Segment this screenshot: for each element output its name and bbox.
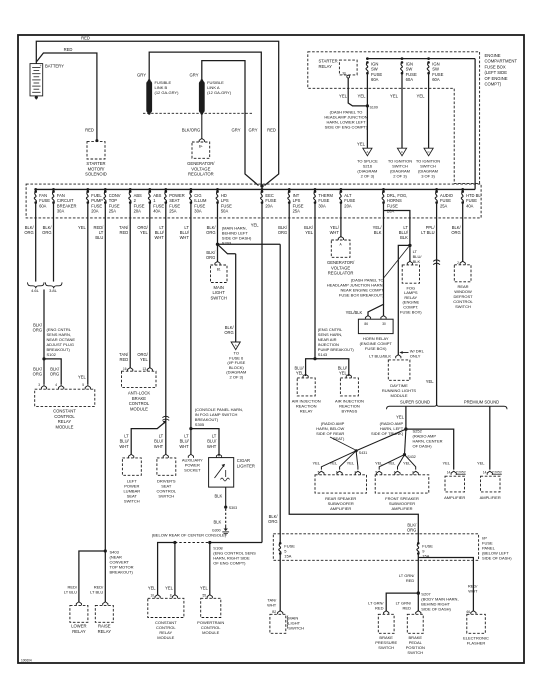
svg-text:ONLY: ONLY: [410, 353, 421, 358]
svg-text:RED: RED: [120, 357, 129, 362]
svg-text:BLU: BLU: [95, 235, 103, 240]
svg-text:FUSE BOX BREAKOUT): FUSE BOX BREAKOUT): [339, 293, 384, 298]
svg-text:2 OF 3): 2 OF 3): [230, 375, 244, 380]
svg-text:ORG: ORG: [206, 255, 215, 260]
svg-text:WHT: WHT: [154, 444, 164, 449]
svg-text:WHT: WHT: [180, 235, 190, 240]
svg-text:S303: S303: [229, 506, 237, 510]
svg-text:20A: 20A: [265, 203, 273, 208]
svg-text:(LEFT SIDE: (LEFT SIDE: [485, 70, 508, 75]
svg-text:30: 30: [382, 322, 386, 326]
svg-text:WHT: WHT: [179, 444, 189, 449]
svg-text:25A: 25A: [293, 209, 301, 214]
svg-text:RELAY: RELAY: [300, 409, 313, 414]
svg-text:COMPARTMENT: COMPARTMENT: [485, 59, 518, 64]
svg-text:GRY: GRY: [232, 128, 241, 133]
svg-text:14: 14: [483, 470, 487, 474]
svg-text:SWITCH: SWITCH: [158, 494, 174, 499]
svg-text:OF ENGINE: OF ENGINE: [485, 76, 508, 81]
svg-text:BYPASS: BYPASS: [342, 409, 358, 414]
svg-text:RELAY: RELAY: [72, 629, 86, 634]
svg-text:LT BLU: LT BLU: [64, 590, 77, 595]
svg-text:FUSE BOX): FUSE BOX): [365, 346, 387, 351]
svg-text:SIDE OF TRUNK): SIDE OF TRUNK): [371, 431, 404, 436]
svg-text:55: 55: [202, 594, 206, 598]
svg-text:LT BLU: LT BLU: [421, 230, 435, 235]
svg-text:SOLENOID: SOLENOID: [85, 172, 107, 177]
svg-text:15A: 15A: [284, 553, 291, 558]
svg-text:FUSE BOX: FUSE BOX: [485, 64, 506, 69]
svg-text:YEL: YEL: [388, 460, 396, 465]
svg-text:2 OF 3): 2 OF 3): [393, 174, 407, 179]
svg-text:13: 13: [142, 367, 146, 371]
svg-text:MOTOR/: MOTOR/: [88, 166, 106, 171]
svg-text:SIDE OF ENG COMPT): SIDE OF ENG COMPT): [325, 125, 368, 130]
svg-text:ORG: ORG: [24, 230, 33, 235]
svg-text:PREMIUM SOUND: PREMIUM SOUND: [464, 399, 499, 404]
svg-text:WHT: WHT: [330, 230, 340, 235]
svg-text:RED: RED: [81, 36, 90, 41]
svg-text:STARTER: STARTER: [319, 59, 338, 64]
svg-text:ENGINE: ENGINE: [485, 53, 501, 58]
svg-text:BRAKE: BRAKE: [132, 396, 146, 401]
svg-text:GRY: GRY: [137, 73, 146, 78]
svg-text:ORG: ORG: [268, 519, 277, 524]
svg-text:ORG: ORG: [451, 230, 460, 235]
svg-text:YEL: YEL: [396, 415, 404, 420]
svg-text:LT BLU: LT BLU: [90, 590, 103, 595]
svg-text:16: 16: [123, 367, 127, 371]
svg-text:3.8L: 3.8L: [49, 288, 58, 293]
svg-text:FUSE BOX): FUSE BOX): [400, 309, 422, 314]
svg-text:SWITCH: SWITCH: [455, 304, 471, 309]
svg-text:YEL: YEL: [312, 460, 320, 465]
svg-text:YEL: YEL: [403, 460, 411, 465]
svg-text:10: 10: [150, 594, 154, 598]
svg-text:BLK: BLK: [413, 259, 421, 264]
svg-text:WHT: WHT: [207, 444, 217, 449]
svg-text:86: 86: [364, 322, 368, 326]
svg-text:CONTROL: CONTROL: [54, 414, 75, 419]
svg-text:ORG: ORG: [42, 230, 51, 235]
svg-text:BLK: BLK: [374, 230, 382, 235]
svg-text:(BELOW REAR OF CENTER CONSOLE): (BELOW REAR OF CENTER CONSOLE): [152, 532, 227, 537]
svg-text:MODULE: MODULE: [130, 407, 148, 412]
svg-text:25A: 25A: [169, 209, 177, 214]
svg-text:(12 GA-GRY): (12 GA-GRY): [207, 90, 232, 95]
svg-text:LIGHT: LIGHT: [213, 290, 226, 295]
svg-text:LOWER: LOWER: [71, 624, 86, 629]
svg-text:WHT: WHT: [119, 444, 129, 449]
svg-text:GENERATOR/: GENERATOR/: [187, 161, 215, 166]
svg-text:60A: 60A: [432, 77, 440, 82]
svg-text:B+: B+: [199, 144, 203, 148]
svg-text:MODULE: MODULE: [202, 630, 219, 635]
svg-text:20A: 20A: [344, 203, 352, 208]
svg-text:REGULATOR: REGULATOR: [188, 172, 214, 177]
svg-text:66: 66: [466, 610, 470, 614]
svg-text:AMPLIFIER: AMPLIFIER: [391, 506, 412, 511]
svg-text:YEL: YEL: [140, 230, 148, 235]
svg-text:VOLTAGE: VOLTAGE: [191, 166, 210, 171]
svg-text:YEL: YEL: [78, 375, 86, 380]
svg-text:CONSTANT: CONSTANT: [53, 409, 76, 414]
svg-text:FLASHER: FLASHER: [467, 641, 486, 646]
svg-text:REGULATOR: REGULATOR: [328, 271, 354, 276]
svg-text:BLK/ORG: BLK/ORG: [182, 128, 201, 133]
svg-text:SWITCH: SWITCH: [407, 650, 423, 655]
svg-text:RELAY: RELAY: [319, 64, 333, 69]
svg-text:BREAKOUT): BREAKOUT): [110, 570, 134, 575]
svg-text:YEL/BLK: YEL/BLK: [346, 310, 363, 315]
svg-text:20A: 20A: [134, 209, 142, 214]
svg-text:YEL: YEL: [200, 586, 208, 591]
svg-text:ORG: ORG: [407, 528, 416, 533]
svg-text:GRY: GRY: [249, 128, 258, 133]
svg-text:3: 3: [38, 383, 40, 387]
svg-text:2: 2: [457, 261, 459, 265]
svg-text:S305: S305: [195, 422, 205, 427]
svg-text:OF ENG COMPT): OF ENG COMPT): [213, 561, 246, 566]
svg-text:8: 8: [170, 594, 172, 598]
svg-text:30A: 30A: [57, 209, 65, 214]
svg-text:OF DASH): OF DASH): [413, 443, 433, 448]
svg-text:YEL: YEL: [305, 230, 313, 235]
svg-text:SOCKET: SOCKET: [184, 468, 201, 473]
svg-text:RELAY: RELAY: [98, 629, 112, 634]
svg-text:MAIN: MAIN: [213, 285, 223, 290]
svg-text:RED: RED: [403, 606, 412, 611]
svg-text:BLK: BLK: [215, 494, 223, 499]
svg-text:SWITCH: SWITCH: [378, 645, 394, 650]
svg-text:YEL: YEL: [78, 225, 86, 230]
svg-text:YEL: YEL: [339, 371, 347, 376]
svg-text:YEL: YEL: [148, 586, 156, 591]
svg-text:30: 30: [342, 71, 346, 75]
svg-text:40A: 40A: [153, 209, 161, 214]
svg-text:SIDE OF DASH): SIDE OF DASH): [421, 606, 451, 611]
svg-text:RED: RED: [120, 230, 129, 235]
svg-text:LIGHTER: LIGHTER: [237, 463, 255, 468]
svg-text:STARTER: STARTER: [86, 161, 105, 166]
svg-text:YEL: YEL: [417, 94, 426, 99]
svg-text:YEL: YEL: [357, 142, 366, 147]
svg-text:CIGAR: CIGAR: [237, 458, 250, 463]
svg-text:WHT: WHT: [154, 235, 164, 240]
svg-text:C2052: C2052: [456, 470, 466, 474]
svg-text:YEL: YEL: [339, 94, 348, 99]
svg-text:YEL: YEL: [165, 586, 173, 591]
svg-text:YEL: YEL: [330, 460, 338, 465]
svg-text:3 OF 3): 3 OF 3): [421, 174, 435, 179]
svg-text:RAISE: RAISE: [98, 624, 111, 629]
svg-text:25A: 25A: [440, 203, 448, 208]
svg-text:LT BLU/BLK: LT BLU/BLK: [369, 353, 391, 358]
svg-text:60A: 60A: [406, 77, 414, 82]
svg-text:GRY: GRY: [190, 73, 199, 78]
svg-text:SUPER SOUND: SUPER SOUND: [400, 399, 430, 404]
svg-text:4: 4: [55, 383, 57, 387]
svg-text:SWITCH: SWITCH: [124, 499, 140, 504]
svg-text:ORG: ORG: [206, 230, 215, 235]
svg-text:VOLTAGE: VOLTAGE: [331, 265, 350, 270]
svg-text:5: 5: [82, 383, 84, 387]
svg-text:B1: B1: [217, 267, 221, 271]
svg-text:CONTROL: CONTROL: [129, 401, 150, 406]
svg-text:S143: S143: [318, 352, 328, 357]
svg-text:YEL: YEL: [442, 460, 450, 465]
svg-text:YEL: YEL: [426, 379, 434, 384]
svg-text:AMPLIFIER: AMPLIFIER: [330, 506, 351, 511]
svg-text:60A: 60A: [371, 77, 379, 82]
svg-text:ORG: ORG: [50, 372, 59, 377]
svg-text:ORG: ORG: [33, 328, 42, 333]
svg-text:BLK: BLK: [214, 520, 222, 525]
svg-text:YEL: YEL: [375, 460, 383, 465]
svg-text:YEL: YEL: [358, 94, 367, 99]
svg-text:S109: S109: [370, 106, 378, 110]
svg-text:SWITCH: SWITCH: [210, 296, 227, 301]
svg-text:(12 GA-GRY): (12 GA-GRY): [155, 90, 180, 95]
svg-text:RED: RED: [85, 128, 94, 133]
svg-text:60A: 60A: [39, 203, 47, 208]
svg-text:+: +: [40, 64, 42, 68]
svg-text:25A: 25A: [109, 209, 117, 214]
svg-text:A: A: [366, 150, 368, 154]
svg-text:S431: S431: [359, 451, 367, 455]
svg-text:AMPLIFIER: AMPLIFIER: [480, 495, 501, 500]
svg-text:YEL: YEL: [347, 460, 355, 465]
svg-text:SIDE OF DASH): SIDE OF DASH): [482, 556, 512, 561]
svg-text:YEL: YEL: [140, 357, 148, 362]
svg-text:AMPLIFIER: AMPLIFIER: [444, 495, 465, 500]
svg-text:RED: RED: [375, 606, 384, 611]
svg-text:BLK: BLK: [400, 235, 408, 240]
svg-text:100604: 100604: [21, 659, 32, 663]
svg-text:S102: S102: [47, 352, 57, 357]
svg-text:RED: RED: [406, 578, 415, 583]
svg-text:ORG: ORG: [224, 330, 233, 335]
svg-text:YEL: YEL: [390, 94, 399, 99]
svg-text:MODULE: MODULE: [390, 393, 407, 398]
svg-text:2 OF 3): 2 OF 3): [361, 174, 375, 179]
svg-text:30A: 30A: [318, 203, 326, 208]
svg-text:A: A: [235, 344, 237, 348]
svg-text:YEL: YEL: [477, 460, 485, 465]
svg-text:MODULE: MODULE: [157, 635, 174, 640]
svg-text:30A: 30A: [194, 209, 202, 214]
svg-text:SWITCH: SWITCH: [288, 626, 304, 631]
svg-text:MODULE: MODULE: [56, 425, 74, 430]
svg-text:SEAT): SEAT): [333, 436, 345, 441]
svg-text:4.6L: 4.6L: [31, 288, 40, 293]
svg-text:WHT: WHT: [267, 603, 277, 608]
svg-text:RED: RED: [64, 47, 73, 52]
svg-text:WHT: WHT: [468, 589, 478, 594]
svg-text:B2: B2: [272, 610, 276, 614]
svg-text:RED: RED: [267, 128, 276, 133]
svg-text:50A: 50A: [221, 209, 229, 214]
svg-text:ORG: ORG: [33, 372, 42, 377]
svg-text:14: 14: [447, 470, 451, 474]
svg-text:ORG: ORG: [278, 230, 287, 235]
svg-text:RELAY: RELAY: [58, 419, 72, 424]
svg-text:YEL: YEL: [251, 223, 259, 228]
svg-text:YEL: YEL: [296, 371, 304, 376]
svg-text:GENERATOR/: GENERATOR/: [327, 260, 355, 265]
svg-text:C2052: C2052: [492, 470, 502, 474]
svg-text:COMPT): COMPT): [485, 82, 502, 87]
svg-text:20A: 20A: [91, 209, 99, 214]
svg-text:BATTERY: BATTERY: [45, 64, 64, 69]
svg-text:ANTI-LOCK: ANTI-LOCK: [128, 391, 151, 396]
svg-text:40A: 40A: [466, 203, 474, 208]
